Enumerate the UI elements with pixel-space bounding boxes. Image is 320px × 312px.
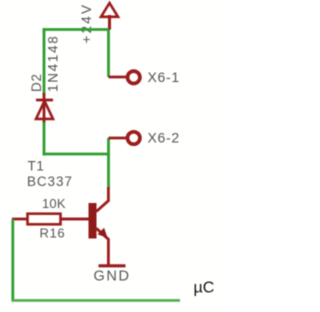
wire left vertical from resistor down <box>11 219 14 300</box>
resistor R16 body <box>28 214 61 225</box>
pad circle X6-1 <box>128 71 140 83</box>
svg-text:+24V: +24V <box>79 3 94 44</box>
resistor R16 left lead <box>12 218 28 221</box>
svg-text:T1: T1 <box>28 159 45 174</box>
svg-text:D2: D2 <box>29 73 44 92</box>
pin lead X6-2 <box>109 137 127 140</box>
wire rail +24V down to X6-1 <box>107 30 110 78</box>
transistor T1 base bar <box>89 203 97 239</box>
pad circle X6-2 <box>128 132 140 144</box>
resistor R16 right lead <box>61 218 89 221</box>
svg-text:GND: GND <box>94 269 131 285</box>
ground bar <box>99 264 126 267</box>
svg-text:1N4148: 1N4148 <box>46 35 61 93</box>
diode D2 leads <box>43 93 46 124</box>
wire diode bottom vertical <box>43 122 46 155</box>
wire rail down to collector <box>107 154 110 188</box>
transistor Q T1 collector lead <box>96 187 108 212</box>
svg-text:X6-1: X6-1 <box>148 69 180 85</box>
svg-text:10K: 10K <box>42 196 66 211</box>
diode D2 cathode bar <box>36 99 53 102</box>
wire bottom horizontal to uC <box>11 299 180 302</box>
wire top horizontal from +24V to diode column <box>43 28 109 31</box>
transistor T1 emitter lead <box>96 228 108 264</box>
supply symbol +24V arrow <box>101 3 118 30</box>
transistor T1 emitter arrow <box>98 228 108 238</box>
svg-text:µC: µC <box>194 280 215 297</box>
wire diode column upper vertical <box>43 28 46 95</box>
wire middle horizontal to rail <box>43 153 109 156</box>
pin lead X6-1 <box>109 76 127 79</box>
svg-text:R16: R16 <box>40 226 66 241</box>
svg-text:BC337: BC337 <box>27 174 73 189</box>
wire rail up to X6-2 <box>107 138 110 155</box>
diode D2 triangle <box>36 101 53 119</box>
transistor T1 base lead <box>60 218 89 221</box>
svg-text:X6-2: X6-2 <box>148 130 180 146</box>
